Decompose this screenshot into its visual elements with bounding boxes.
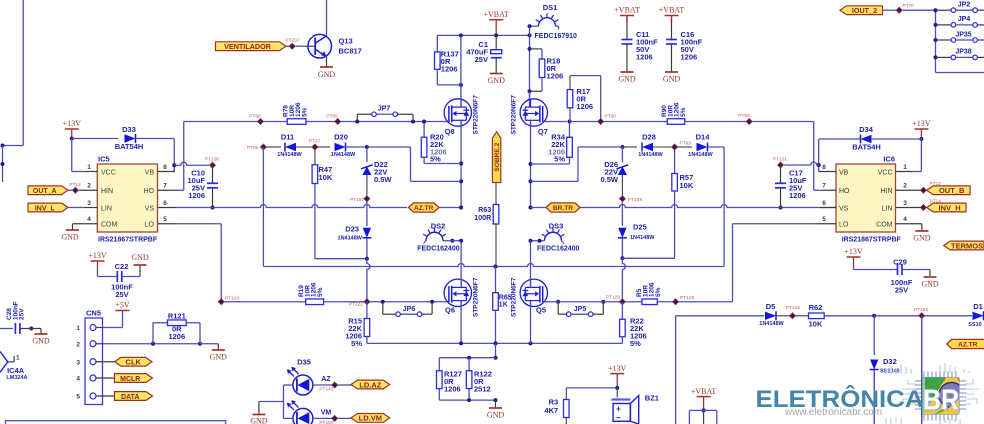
node R137 bottom [459,83,463,87]
ground C1 [490,73,503,75]
resistor R121 [152,323,154,344]
svg-text:Q7: Q7 [538,127,548,136]
node R122 bottom [467,398,471,402]
svg-text:1N4148W: 1N4148W [277,152,302,158]
pin IC6-5 [818,223,836,225]
svg-text:1206: 1206 [636,53,653,62]
svg-text:LO: LO [145,222,155,229]
node +13V junction [70,137,74,141]
wire shunt bottom rail [439,399,495,401]
svg-text:1206: 1206 [547,72,564,81]
svg-text:–: – [616,413,621,422]
svg-text:25V: 25V [475,55,488,64]
svg-text:PT194: PT194 [914,307,928,313]
pin IC5-3 [84,207,97,209]
port CLK [115,357,153,366]
svg-text:5%: 5% [630,339,641,348]
wire Q13 emitter to ground [326,57,328,67]
resistor R122 [468,358,470,371]
wire VB right [818,139,820,172]
svg-text:R62: R62 [809,303,823,312]
node shunt top [494,356,498,360]
svg-text:10K: 10K [809,320,823,329]
buzzer BZ1 [616,388,618,398]
wire SOBRE.2 stem [495,183,497,205]
test point PT13 [920,187,927,194]
wire R62 to D32 node [824,315,874,317]
node VB junction [172,163,176,167]
svg-text:STP220N6F7: STP220N6F7 [511,277,518,317]
resistor R34 [569,122,571,138]
wire gate to PT90 [570,121,599,123]
svg-text:GND: GND [618,75,636,84]
op-amp IC4A LM324A [0,352,8,373]
svg-text:COM: COM [876,222,893,229]
svg-text:C29: C29 [893,258,907,267]
diode D32 SS1040 [870,360,878,370]
ground C16 [665,71,678,73]
svg-text:8: 8 [163,164,167,171]
lamp DS3 FEDC162400 [545,232,562,241]
svg-text:C22: C22 [115,262,129,271]
svg-text:HO: HO [839,188,850,195]
wire LED AZ leads [284,384,293,386]
svg-text:1N4148W: 1N4148W [338,236,363,242]
resistor R57 [674,150,676,174]
svg-text:JP7: JP7 [378,106,391,113]
node Q7 src R34 [529,162,533,166]
diode D34 BAT54H [872,138,922,140]
diode D25 1N4148W [621,202,623,226]
svg-text:IOUT_2: IOUT_2 [852,6,877,15]
resistor R20 [423,122,425,138]
wire Q5 gate row [543,301,556,303]
svg-text:5%: 5% [301,107,308,117]
node VB right junction [817,163,821,167]
wire DS1 column [529,26,531,99]
logo circuit traces [886,363,979,424]
wire D23 node to PT122 [367,259,370,299]
wire CN5-4 [96,377,115,379]
pin IC6-8 [819,171,836,173]
node JP2 tap [934,8,938,12]
svg-text:1N4148W: 1N4148W [331,152,356,158]
svg-text:GND: GND [32,337,50,346]
node DS3 phase [529,239,533,243]
wire shunt top rail [439,357,495,359]
wire CN5-2 to gnd [200,343,218,345]
svg-text:FEDC162400: FEDC162400 [417,246,460,253]
svg-text:PT150: PT150 [319,420,333,424]
wire left border vertical [22,0,24,146]
svg-text:R121: R121 [168,312,186,321]
wire D32 column [873,316,875,355]
svg-text:D33: D33 [122,125,136,134]
lamp DS1 [539,18,556,27]
svg-text:LM324A: LM324A [6,375,27,381]
svg-text:SS10: SS10 [968,322,981,328]
svg-text:6: 6 [163,200,167,207]
svg-text:BR.TR: BR.TR [553,205,573,212]
resistor R15 [366,302,368,319]
node left edge junction B [1,162,5,166]
test point PT99 [671,144,678,151]
diode D11 1N4148W [266,146,281,148]
svg-text:D14: D14 [696,133,711,142]
resistor R17 [569,108,571,122]
node R18 bottom [528,89,532,93]
diode D14 1N4148W [677,146,692,148]
svg-text:VCC: VCC [878,169,893,176]
led D35 VM [293,408,313,424]
wire D32 column over logo [873,370,875,424]
svg-text:VS: VS [145,205,155,212]
capacitor C22 [116,271,118,282]
svg-text:GND: GND [318,70,336,79]
test point PT207 [289,43,296,50]
svg-text:IC5: IC5 [98,155,110,164]
ground Q13 [320,66,333,68]
wire IOUT_2 to JP bank [883,9,896,11]
wire PT89 to Q8 gate [340,121,449,123]
wire C22 left [97,269,99,277]
wire source rail [367,342,623,344]
svg-text:PT12: PT12 [69,182,81,188]
svg-text:DS1: DS1 [543,3,558,12]
resistor R90 [667,119,685,125]
svg-text:JP35: JP35 [955,31,971,38]
wire PT143 to flag [337,384,351,386]
port IOUT_2 [840,6,883,15]
transistor Q6 STP220N6F7 [444,279,471,306]
wire VBAT bottom prongs [689,409,716,411]
transistor Q8 STP220N6F7 [444,99,471,126]
svg-text:1206: 1206 [681,53,698,62]
svg-text:JP2: JP2 [958,2,971,9]
wire LED common [283,385,285,418]
node C10 VS junction [211,206,215,210]
pin IC5-4 [73,223,98,225]
jumper JP7 [356,114,358,121]
node D25 bottom [620,256,624,260]
svg-text:D5: D5 [766,302,776,311]
svg-text:4: 4 [903,216,907,223]
svg-text:25V: 25V [115,290,128,299]
svg-text:FEDC162400: FEDC162400 [537,246,580,253]
svg-text:Q8: Q8 [445,127,455,136]
node JP5 left [556,300,560,304]
ground D35 [252,414,265,416]
pin IC5-6 [158,207,177,209]
svg-text:FEDC167910: FEDC167910 [535,33,578,40]
wire R19 to PT122 [324,301,365,303]
svg-text:PT107: PT107 [350,197,364,203]
svg-text:HIN: HIN [101,188,113,195]
capacitor C11 [622,39,633,41]
svg-text:1206: 1206 [441,65,458,74]
svg-text:PT97: PT97 [309,139,321,145]
wire D23 to R47 row [366,238,368,258]
test point PT126 [218,298,225,305]
wire VS row left [176,207,213,209]
wire PT194 column [921,316,923,424]
banner BR.TR [546,203,580,212]
ground R121 [212,349,225,351]
svg-text:INV_L: INV_L [35,205,56,212]
svg-text:VM: VM [321,409,332,416]
svg-text:+5V: +5V [115,301,130,310]
svg-text:+VBAT: +VBAT [659,6,685,15]
wire LED VM leads [284,417,293,419]
svg-text:LIN: LIN [101,205,112,212]
svg-text:Q6: Q6 [445,306,455,315]
svg-text:D1: D1 [973,302,983,311]
svg-text:1K: 1K [499,302,508,309]
node rail-drain Q8 [459,33,463,37]
resistor R47 [314,147,316,165]
banner AZ.TR right [947,339,984,348]
svg-text:PT89: PT89 [326,114,338,120]
wire CN5-3 [96,361,115,363]
wire D5 to PT232 [776,315,790,317]
wire D25 node to PT128 [622,258,625,299]
pin IC5-8 [158,171,176,173]
node JP38 tap [934,55,938,59]
svg-text:5: 5 [822,216,826,223]
wire VB to PT100 with hop [174,162,209,165]
wire R90 to PT93 [685,121,747,123]
node JP5 right [601,300,605,304]
ground IC5 COM [72,224,74,230]
ground C29 [924,276,937,278]
node JP6 right [430,300,434,304]
svg-text:100R: 100R [474,213,492,222]
port MCLR [115,374,153,383]
lamp DS2 FEDC162400 [426,232,443,241]
test point PT88 [257,118,264,125]
test point PT100 [209,162,216,169]
net flag SOBRE.2 [492,132,500,183]
svg-text:STP220N6F7: STP220N6F7 [473,95,480,135]
capacitor C16 [666,39,677,41]
svg-text:VS: VS [839,205,849,212]
svg-text:5%: 5% [317,287,324,297]
port LD.VM [351,414,390,423]
node JP7 left [355,120,359,124]
svg-text:5%: 5% [430,155,441,164]
svg-text:5%: 5% [351,339,362,348]
svg-text:PT128: PT128 [606,295,620,301]
svg-text:GND: GND [487,411,505,420]
test point PT129 [672,298,679,305]
logo chip [915,372,966,421]
svg-text:SS1040: SS1040 [880,369,900,375]
svg-text:PT96: PT96 [247,145,259,151]
svg-text:JP38: JP38 [955,49,971,56]
svg-text:2: 2 [87,183,91,190]
jumper JP4 [936,24,952,26]
node Q8 src R20 [459,162,463,166]
wire clamp to phase [367,146,411,148]
svg-text:D23: D23 [345,225,359,234]
ic IC5 IRS21867STRPBF [97,164,157,232]
svg-text:BC817: BC817 [339,47,362,56]
wire C29 left [853,265,855,270]
svg-text:10K: 10K [680,181,694,190]
pin IC6-6 [820,207,836,209]
wire PT122 to Q6 gate [369,301,449,303]
svg-text:DATA: DATA [121,394,139,401]
svg-text:BAT54H: BAT54H [115,142,144,151]
svg-text:DS2: DS2 [431,222,446,231]
wire VB to PT101 with hop [784,162,819,165]
svg-text:VB: VB [145,169,155,176]
resistor R78 [287,119,306,125]
wire D5 left leg [675,316,677,424]
node VS phase junction [459,206,463,210]
wire C22 right [122,276,140,278]
test point PT90 [597,118,604,125]
svg-text:HIN: HIN [880,188,892,195]
ground IC6 COM [921,224,923,231]
node C17 VS junction [779,206,783,210]
wire D33 anode [72,138,119,140]
svg-text:1206: 1206 [444,385,461,394]
port INV_H [927,203,966,212]
node DS3 lead [538,239,542,243]
zener D26 [621,147,623,162]
transistor Q5 STP220N6F7 [520,279,547,306]
wire DS3 to phase [531,240,539,242]
svg-text:TERMOS: TERMOS [951,241,983,250]
svg-text:10K: 10K [319,173,333,182]
port VENTILADOR [216,42,287,51]
svg-text:1: 1 [16,355,20,362]
wire C28 lead [0,328,13,330]
svg-text:1: 1 [76,325,80,332]
svg-text:5%: 5% [554,155,565,164]
svg-text:PT70: PT70 [903,3,915,9]
svg-text:OUT_B: OUT_B [939,186,965,195]
svg-text:D25: D25 [633,223,647,232]
svg-text:GND: GND [921,280,939,289]
ground shunt [489,407,502,409]
svg-text:CLK: CLK [126,358,142,367]
svg-text:1N4148W: 1N4148W [759,321,784,327]
node R20 top [422,120,426,124]
wire PT93 to HO right [752,121,814,123]
svg-text:VCC: VCC [101,169,116,176]
pin IC6-1 [896,171,914,173]
svg-text:LD.AZ: LD.AZ [359,380,381,389]
wire D25 to R57 row [621,238,623,258]
svg-text:PT129: PT129 [680,295,694,301]
wire PT194 column over logo [921,316,923,424]
svg-text:STP220N6F7: STP220N6F7 [511,95,518,135]
wire LO to PT126 [175,223,221,225]
svg-text:GND: GND [131,253,149,262]
jumper JP6 [382,302,384,314]
svg-text:GND: GND [210,353,228,362]
svg-text:STP220N6F7: STP220N6F7 [473,277,480,317]
test point PT93 [746,118,753,125]
resistor R3 [564,400,570,418]
node shunt bottom [494,398,498,402]
wire CN5-5 [96,395,115,397]
wire R63 to bus [495,224,497,267]
test point PT97 [311,144,318,151]
resistor R137 [436,35,438,52]
node JP4 tap [934,23,938,27]
svg-text:DS3: DS3 [549,222,564,231]
svg-text:GND: GND [913,234,931,243]
node BZ1 junction [615,386,619,390]
node JP7 right [411,120,415,124]
port TERMOS [944,241,984,250]
svg-text:7: 7 [163,183,167,190]
svg-text:BZ1: BZ1 [645,394,659,403]
svg-text:LO: LO [839,222,849,229]
wire D14 cathode bus leg [708,146,724,148]
svg-text:1N4148W: 1N4148W [688,152,713,158]
wire VS row to phase [439,207,461,209]
test point PT101 [777,162,784,169]
svg-text:IRS21867STRPBF: IRS21867STRPBF [98,237,158,244]
svg-text:+VBAT: +VBAT [691,387,717,396]
diode D33 BAT54H [125,134,136,142]
wire VS row right [531,205,779,208]
svg-text:3: 3 [903,200,907,207]
svg-text:+13V: +13V [63,119,82,128]
svg-text:7: 7 [822,183,826,190]
svg-text:GND: GND [61,233,79,242]
wire clamp to phase right [578,146,622,148]
capacitor C28 [14,323,16,334]
diode D20 1N4148W [317,146,330,148]
svg-text:5: 5 [76,394,80,401]
svg-text:PT99: PT99 [680,141,692,147]
capacitor C17 [780,165,782,183]
svg-text:INV_H: INV_H [939,203,961,212]
svg-text:PT101: PT101 [773,157,787,163]
node VBAT bottom junction [702,408,706,412]
wire Q8 drain [460,35,462,107]
wire Q7 drain [529,91,531,107]
svg-text:8: 8 [822,164,826,171]
jumper JP38 [936,56,952,58]
svg-text:PT143: PT143 [319,387,333,393]
svg-text:JP4: JP4 [958,16,971,23]
wire Q5 source [530,301,532,344]
svg-text:25V: 25V [895,286,908,295]
svg-text:AZ: AZ [321,376,331,383]
svg-text:COM: COM [101,222,118,229]
svg-text:4: 4 [87,216,91,223]
wire PT232 to R62 [795,315,809,317]
pin IC6-2 [896,189,921,191]
resistor R127 [437,371,443,389]
ground C28 [35,333,48,335]
svg-text:3: 3 [87,200,91,207]
wire Q7 gate row [543,121,567,123]
svg-text:PT207: PT207 [285,38,299,44]
pin IC5-7 [158,189,176,191]
wire VCC feed right [920,139,922,172]
svg-text:+13V: +13V [844,247,863,256]
wire +VBAT rail [437,34,529,36]
node Q7 src clamp [529,179,533,183]
test point PT143 [331,382,338,389]
